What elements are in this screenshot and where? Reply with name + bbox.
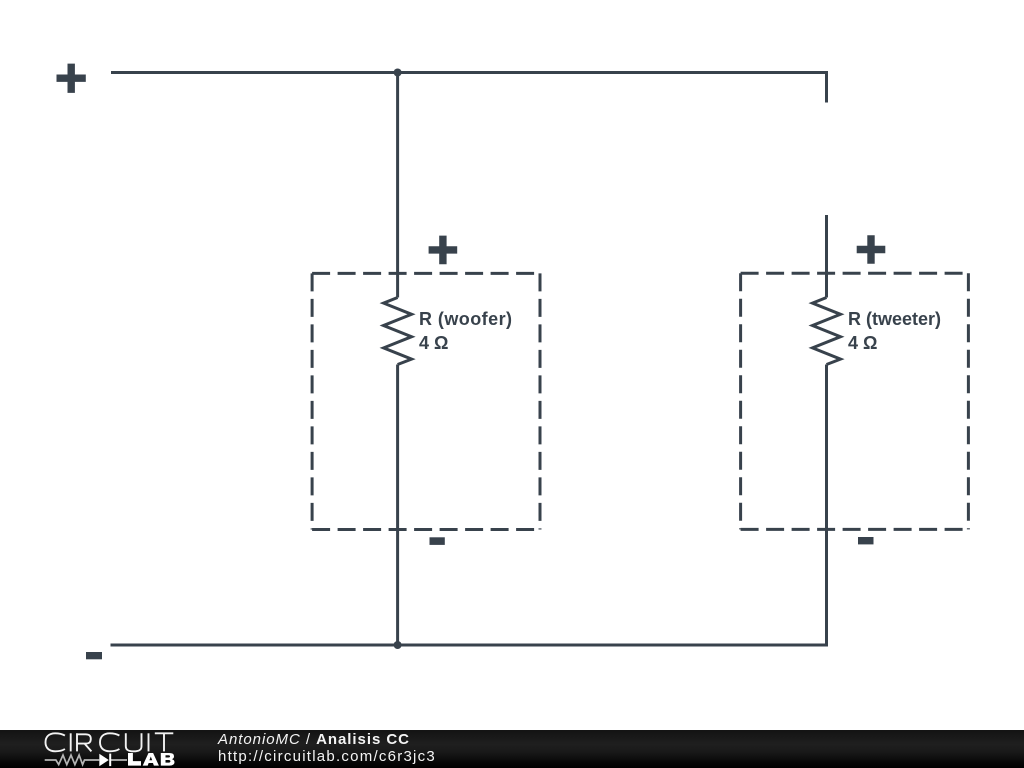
minus polarity mark below tweeter box [858, 537, 874, 544]
wire: top bus from source + to right branch, with corner drop [111, 73, 827, 103]
dashed annotation box around R (tweeter) [741, 273, 969, 529]
dashed annotation box around R (woofer) [312, 273, 540, 529]
junction node on top bus [394, 69, 402, 77]
label: R (woofer) value 4 ohm [419, 334, 448, 352]
footer logo resistor-diode squiggle [45, 755, 127, 765]
minus polarity mark below woofer box [430, 537, 445, 545]
footer text: schematic url [218, 748, 436, 765]
wire: bottom bus from source - with corner up to R tweeter [111, 365, 827, 646]
plus polarity mark of source (top left) [57, 64, 86, 93]
plus polarity mark above woofer box [429, 236, 458, 265]
label: R (tweeter) name [848, 310, 941, 328]
footer logo word LAB (heavy block letters) [128, 753, 175, 766]
resistor R (tweeter) 4 ohm zigzag [813, 298, 841, 365]
footer text: author AntonioMC / title Analisis CC [218, 731, 410, 748]
label: R (tweeter) value 4 ohm [848, 334, 877, 352]
footer logo diode triangle and cathode bar [99, 754, 111, 767]
footer logo word CIRCUIT (thin outline letters) [46, 733, 174, 751]
junction node on bottom bus [394, 641, 402, 649]
plus polarity mark above tweeter box [857, 235, 886, 264]
wire: left branch vertical lower segment (R woofer to bottom bus) [396, 365, 399, 646]
wire: left branch vertical upper segment (node A to R woofer) [396, 73, 399, 298]
resistor R (woofer) 4 ohm zigzag [384, 298, 412, 365]
wire: right branch upper segment (open gap above, into tweeter box) [825, 215, 828, 298]
label: R (woofer) name [419, 310, 513, 328]
minus polarity mark of source (bottom left) [86, 652, 102, 659]
